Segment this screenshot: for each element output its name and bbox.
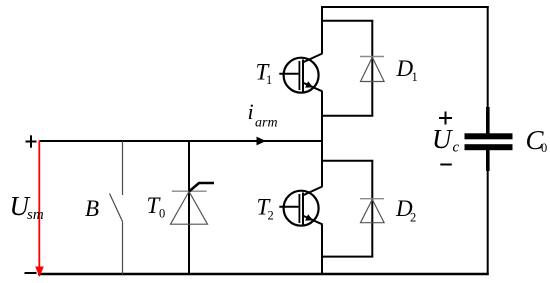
svg-text:U: U	[432, 124, 453, 154]
svg-text:2: 2	[268, 209, 274, 223]
svg-text:c: c	[453, 140, 460, 156]
svg-text:i: i	[248, 99, 254, 124]
svg-text:sm: sm	[27, 207, 44, 223]
svg-text:B: B	[85, 196, 99, 221]
svg-text:1: 1	[412, 70, 418, 84]
svg-text:0: 0	[159, 207, 165, 221]
svg-text:0: 0	[541, 141, 547, 155]
svg-text:arm: arm	[255, 116, 278, 131]
svg-text:1: 1	[266, 73, 272, 87]
svg-text:2: 2	[410, 211, 416, 225]
